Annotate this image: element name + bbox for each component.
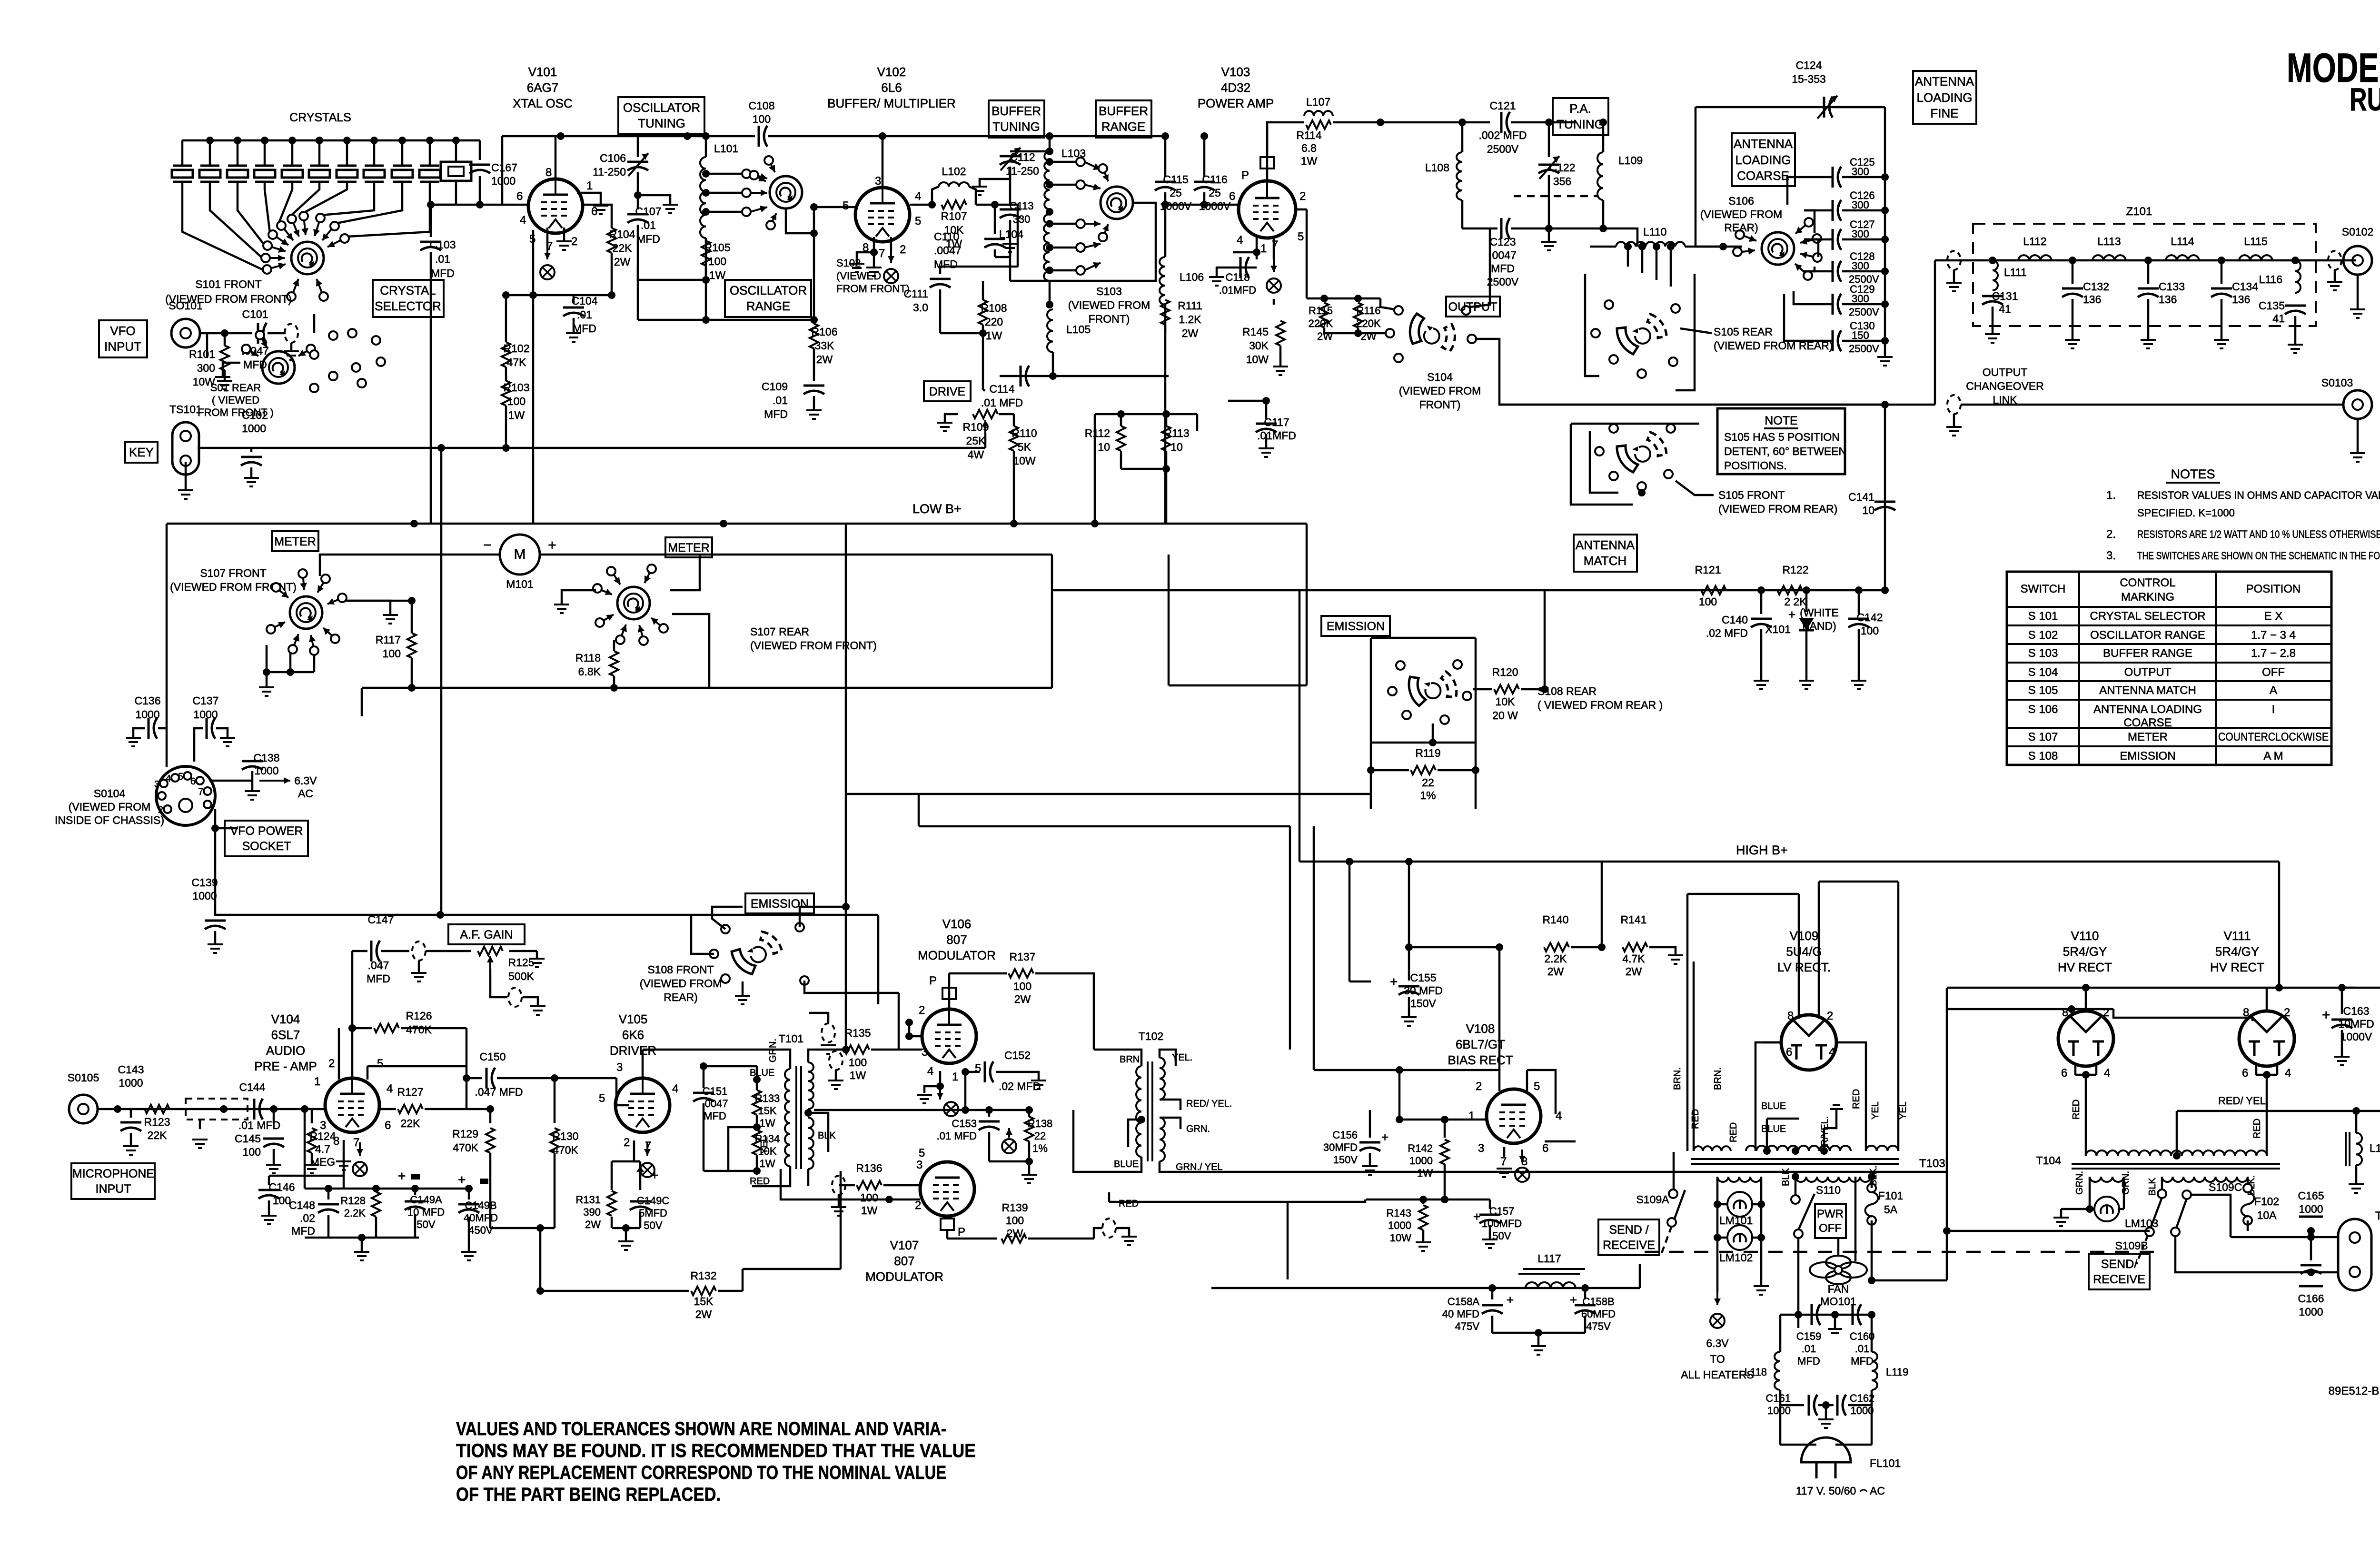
svg-text:MFD: MFD [934, 258, 958, 270]
resistor R128 [372, 1192, 380, 1217]
svg-text:L113: L113 [2097, 235, 2121, 248]
wire link to R125 [426, 950, 471, 952]
svg-text:METER: METER [668, 541, 710, 555]
ground link [284, 351, 299, 360]
wire V102 grid left [814, 206, 855, 208]
svg-text:+: + [548, 537, 556, 553]
svg-text:22K: 22K [401, 1117, 421, 1130]
bulb X V108 [1515, 1168, 1529, 1182]
svg-text:10: 10 [1098, 441, 1110, 453]
label box ANTENNA MATCH [1574, 535, 1637, 572]
svg-text:.01 MFD: .01 MFD [937, 1130, 977, 1142]
svg-text:OSCILLATOR: OSCILLATOR [730, 283, 807, 297]
resistor R106 [813, 233, 815, 324]
svg-text:METER: METER [274, 535, 316, 548]
resistor R140 [1544, 943, 1569, 951]
link R136 [832, 1176, 845, 1195]
svg-text:2500V: 2500V [1849, 343, 1879, 355]
inductor L108 [1461, 122, 1464, 152]
svg-text:C155: C155 [1410, 971, 1437, 984]
svg-text:100: 100 [1006, 1214, 1024, 1227]
svg-text:KEY: KEY [129, 445, 154, 459]
ground R124 [304, 1165, 319, 1173]
svg-text:450V: 450V [468, 1224, 493, 1236]
wire R133 R134 tap [728, 1127, 757, 1171]
wire S107F to meter line [320, 555, 500, 576]
svg-text:RECEIVE: RECEIVE [1603, 1239, 1655, 1252]
svg-text:2W: 2W [1014, 993, 1031, 1005]
ground X101 [1799, 681, 1814, 689]
switch S105 REAR outline [1585, 274, 1599, 376]
svg-text:1.2K: 1.2K [1179, 313, 1201, 326]
svg-text:C117: C117 [1264, 416, 1289, 428]
resistor R101 [224, 333, 226, 346]
svg-text:S106: S106 [1728, 195, 1754, 207]
svg-text:BUFFER: BUFFER [992, 104, 1041, 118]
wire V105 plate top [642, 1050, 644, 1078]
svg-text:300: 300 [197, 362, 215, 374]
rotary switch S106 [1762, 232, 1794, 265]
wire V108 plates top [1498, 1070, 1501, 1091]
ground V102 g3 [849, 264, 864, 272]
wire high b+ drop [2278, 862, 2281, 988]
wire C103 down to LOW B+ bus [430, 252, 432, 524]
ground V101 cathode [556, 241, 572, 250]
tube V110 [2058, 1011, 2113, 1066]
inductor L113 [2092, 255, 2126, 260]
ground S107 front [383, 615, 398, 624]
wire C106 to ground stub [638, 195, 670, 204]
svg-text:RED: RED [750, 1176, 770, 1187]
variable capacitor C106 [637, 136, 639, 157]
tube V106 [922, 1009, 976, 1063]
svg-text:R103: R103 [504, 381, 530, 394]
capacitor C108 [759, 126, 767, 147]
svg-text:50V: 50V [416, 1219, 435, 1230]
svg-text:R116: R116 [1357, 305, 1381, 317]
svg-text:POSITIONS.: POSITIONS. [1724, 459, 1787, 472]
wire V108 pin6 right [1545, 1140, 1576, 1143]
svg-text:R109: R109 [963, 421, 989, 433]
svg-text:R105: R105 [704, 241, 731, 254]
svg-text:S107 FRONT: S107 FRONT [200, 567, 266, 579]
ground S101 rear [215, 377, 230, 386]
svg-text:6.3V: 6.3V [294, 774, 317, 787]
svg-text:V108: V108 [1466, 1021, 1495, 1036]
fan MO101 [1810, 1256, 1867, 1284]
svg-text:2W: 2W [695, 1308, 712, 1320]
svg-text:(VIEWED FROM: (VIEWED FROM [1399, 385, 1481, 397]
wire S108F to V106 grid [804, 981, 899, 993]
svg-text:POSITION: POSITION [2246, 583, 2301, 595]
svg-text:.047 MFD: .047 MFD [475, 1086, 523, 1098]
svg-text:4: 4 [387, 1082, 393, 1095]
svg-text:LV RECT.: LV RECT. [1777, 960, 1831, 974]
resistor R122 [1777, 586, 1802, 595]
svg-text:C140: C140 [1722, 614, 1748, 626]
link jack C101 out [285, 324, 298, 343]
svg-text:RECEIVE: RECEIVE [2093, 1273, 2145, 1286]
label box CRYSTAL SELECTOR [373, 280, 444, 317]
svg-text:METER: METER [2128, 731, 2168, 743]
svg-text:RED/ YEL: RED/ YEL [2218, 1095, 2266, 1107]
wire R143 C157 node [1366, 1199, 1490, 1201]
svg-text:10: 10 [1862, 504, 1874, 516]
wire R115 R116 node [1307, 297, 1380, 300]
ground C145 [266, 1165, 281, 1173]
svg-text:6: 6 [2061, 1067, 2067, 1080]
resistor R138 [1028, 1110, 1031, 1117]
svg-text:1000: 1000 [192, 890, 217, 902]
svg-text:R115: R115 [1309, 305, 1333, 317]
svg-text:INPUT: INPUT [104, 339, 141, 354]
wire C147 node [351, 951, 354, 1028]
wire S101 rear frame [206, 333, 208, 358]
ground V108 heater [1497, 1169, 1512, 1177]
svg-text:C118: C118 [1226, 271, 1250, 283]
svg-text:S110: S110 [1816, 1184, 1841, 1196]
svg-text:2: 2 [571, 235, 577, 248]
svg-text:6: 6 [591, 205, 597, 218]
svg-text:F101: F101 [1878, 1189, 1903, 1202]
ground C158 [1531, 1346, 1546, 1355]
label box EMISSION (audio) [745, 893, 814, 913]
switch S108 REAR [1403, 663, 1461, 714]
svg-text:22K: 22K [148, 1129, 168, 1141]
wire R105 bottom junction [638, 319, 814, 321]
svg-text:ANTENNA: ANTENNA [1576, 538, 1635, 552]
resistor R131 [611, 1161, 613, 1190]
svg-text:L102: L102 [942, 165, 966, 178]
inductor L107 [1298, 121, 1304, 124]
network C148 R128 C149A [305, 1188, 419, 1190]
svg-text:ALL HEATERS: ALL HEATERS [1681, 1368, 1754, 1381]
wires L110 taps to S105 rear [1624, 243, 1632, 250]
svg-text:2.2K: 2.2K [1544, 952, 1567, 965]
ground C117 [1259, 448, 1274, 457]
svg-text:S 101: S 101 [2028, 610, 2058, 623]
inductor L111 [1993, 260, 1998, 290]
capacitor C104 [533, 294, 574, 297]
resistor R120 [1473, 688, 1492, 691]
wire plate line to C121 [1333, 121, 1490, 124]
svg-text:2: 2 [2284, 1006, 2290, 1019]
svg-text:TS102: TS102 [2375, 1209, 2380, 1222]
svg-text:C139: C139 [192, 876, 218, 889]
svg-text:(VIEWED FROM: (VIEWED FROM [1068, 299, 1150, 311]
ground T101 shield [821, 1045, 836, 1054]
svg-text:2W: 2W [1547, 965, 1564, 978]
wire to SO103 [1961, 404, 2343, 406]
wire T103 taps [1763, 1147, 1771, 1155]
svg-text:R110: R110 [1011, 427, 1037, 439]
svg-text:OF THE PART BEING REPLACED.: OF THE PART BEING REPLACED. [456, 1484, 721, 1505]
svg-text:500K: 500K [508, 970, 534, 982]
svg-text:SWITCH: SWITCH [2021, 583, 2066, 595]
svg-text:BUFFER/ MULTIPLIER: BUFFER/ MULTIPLIER [827, 96, 956, 110]
svg-text:COUNTERCLOCKWISE: COUNTERCLOCKWISE [2218, 731, 2329, 743]
resistor R142 [1444, 1120, 1446, 1138]
svg-text:C101: C101 [242, 308, 268, 320]
svg-text:33K: 33K [815, 339, 835, 352]
svg-text:6L6: 6L6 [881, 80, 902, 95]
tube V109 [1781, 1015, 1836, 1070]
ground C143 [123, 1146, 139, 1155]
svg-text:5: 5 [377, 1057, 383, 1070]
svg-text:22K: 22K [613, 242, 633, 254]
svg-text:4: 4 [2285, 1067, 2291, 1080]
svg-text:6.3V: 6.3V [1706, 1337, 1729, 1349]
svg-text:BLUE: BLUE [1761, 1124, 1786, 1134]
svg-text:R117: R117 [376, 634, 401, 646]
ground C146 [261, 1216, 277, 1224]
svg-text:C144: C144 [239, 1081, 266, 1093]
svg-text:8: 8 [333, 1135, 339, 1148]
svg-text:2W: 2W [1007, 1227, 1023, 1239]
wire right verticals ladder [1299, 590, 1301, 862]
dashed box Z101 [1973, 224, 2316, 326]
svg-text:T103: T103 [1919, 1157, 1945, 1170]
label box MICROPHONE INPUT [71, 1163, 155, 1199]
svg-text:3: 3 [616, 1061, 623, 1074]
resistor R137 [949, 972, 1007, 975]
svg-text:S01 REAR: S01 REAR [210, 382, 261, 394]
svg-text:4.7: 4.7 [315, 1143, 330, 1155]
wire HIGH B+ bus [1299, 861, 2279, 863]
link SO103 input [1947, 395, 1961, 414]
wire V103 plate up [1266, 122, 1269, 182]
svg-text:10W: 10W [1246, 353, 1269, 366]
svg-text:MFD: MFD [1851, 1355, 1874, 1367]
svg-text:BLUE: BLUE [750, 1068, 774, 1078]
svg-text:475V: 475V [1455, 1320, 1480, 1332]
svg-text:(VIEWED FROM: (VIEWED FROM [640, 977, 722, 990]
wires LM winding [1716, 1177, 1719, 1204]
svg-text:S0103: S0103 [2321, 377, 2353, 389]
ground V106 cathode [917, 1095, 932, 1103]
resistor R134 [753, 1130, 761, 1155]
svg-text:2W: 2W [1626, 965, 1642, 978]
resistor R132 [540, 1290, 689, 1292]
ground C157 [1482, 1239, 1497, 1248]
svg-text:150V: 150V [1410, 997, 1436, 1010]
variable capacitor C124 [1824, 97, 1833, 118]
capacitor C111 [940, 267, 1018, 274]
resistor R135 [836, 1049, 843, 1051]
ground C140 [1754, 681, 1769, 689]
wire R121 bus [1299, 589, 1885, 592]
wire LM bottoms [1716, 1238, 1719, 1292]
link R135 [829, 1051, 843, 1070]
label box VFO INPUT [99, 320, 147, 357]
svg-text:390: 390 [583, 1206, 601, 1218]
svg-text:807: 807 [894, 1254, 914, 1268]
label box OUTPUT [1446, 297, 1500, 317]
svg-text:470K: 470K [406, 1023, 432, 1036]
svg-text:NOTE: NOTE [1765, 414, 1797, 427]
capacitor C140 [1760, 590, 1763, 614]
wire T102 right verticals [1287, 1202, 1289, 1279]
capacitor C123 [1462, 228, 1497, 230]
svg-text:A.F. GAIN: A.F. GAIN [460, 928, 513, 942]
wire KEY line [198, 447, 985, 449]
svg-text:C149A: C149A [410, 1194, 442, 1206]
svg-text:(WHITE: (WHITE [1800, 606, 1839, 619]
svg-text:RED: RED [2252, 1119, 2262, 1139]
wire S0104 pin to C139 [214, 809, 217, 916]
svg-text:100: 100 [753, 113, 771, 125]
capacitor C164 [2356, 1110, 2380, 1112]
svg-text:COARSE: COARSE [1737, 168, 1789, 183]
svg-text:L112: L112 [2023, 235, 2046, 248]
wire V108 pin1 left [1399, 1119, 1487, 1121]
svg-text:1W: 1W [1417, 1167, 1433, 1179]
ground C134 [2214, 340, 2229, 348]
svg-text:C167: C167 [491, 161, 517, 174]
svg-text:P.A.: P.A. [1569, 101, 1591, 116]
svg-text:C135: C135 [2259, 299, 2285, 312]
svg-text:T102: T102 [1139, 1030, 1163, 1042]
svg-text:L106: L106 [1180, 271, 1204, 283]
svg-text:2W: 2W [585, 1219, 601, 1230]
wire L117 line [1211, 1287, 1640, 1289]
svg-text:5: 5 [919, 1147, 925, 1160]
svg-text:1W: 1W [760, 1158, 775, 1169]
svg-text:R130: R130 [553, 1130, 579, 1142]
link mic input [186, 1099, 248, 1120]
svg-text:8: 8 [545, 166, 552, 179]
svg-text:BLUE: BLUE [1114, 1159, 1139, 1169]
svg-text:1000: 1000 [1409, 1155, 1433, 1167]
capacitor C129 [1833, 294, 1841, 315]
capacitor C149B [468, 1189, 470, 1199]
wire T102 primary top BRN [1094, 1050, 1141, 1066]
capacitor C126 [1833, 200, 1841, 221]
capacitor C150 [486, 1068, 495, 1089]
svg-text:41: 41 [1999, 303, 2011, 315]
svg-text:R120: R120 [1492, 666, 1518, 678]
svg-text:7: 7 [1500, 1155, 1507, 1168]
tube V102 [855, 188, 910, 242]
svg-text:(VIEWED FROM: (VIEWED FROM [69, 801, 151, 813]
svg-text:C156: C156 [1332, 1129, 1358, 1141]
svg-text:V104: V104 [271, 1012, 300, 1026]
svg-text:F102: F102 [2254, 1195, 2279, 1208]
wire cap bus to ground [1884, 177, 1886, 356]
svg-text:1W: 1W [1301, 155, 1318, 167]
capacitor C115 [1164, 136, 1167, 177]
ground C112 [972, 187, 987, 195]
svg-text:22: 22 [1034, 1130, 1046, 1142]
ground C130 bus [1877, 357, 1893, 366]
svg-text:1000: 1000 [119, 1077, 143, 1089]
svg-text:C104: C104 [572, 295, 598, 307]
wires V109 top [1798, 894, 1800, 1019]
svg-text:6: 6 [2242, 1067, 2248, 1080]
resistor R141 [1623, 943, 1647, 951]
svg-text:R101: R101 [189, 348, 215, 360]
svg-text:MARKING: MARKING [2121, 591, 2174, 604]
capacitor C101 [258, 323, 267, 344]
wire T102 primary bottom BLUE [1073, 1110, 1141, 1172]
svg-text:4: 4 [166, 773, 171, 784]
svg-text:2: 2 [900, 243, 906, 256]
capacitor C118 [1233, 251, 1257, 254]
svg-text:YEL: YEL [759, 1136, 770, 1154]
svg-text:MFD: MFD [1491, 262, 1515, 275]
wire Z101 input [1935, 259, 1973, 262]
svg-text:10W: 10W [1390, 1232, 1411, 1244]
wire T102 GRN/YEL bottom [1160, 1161, 1947, 1172]
label box ANTENNA LOADING COARSE [1732, 133, 1795, 186]
svg-text:2500V: 2500V [1487, 143, 1519, 155]
meter M101 [500, 535, 540, 575]
ground C135 [2288, 345, 2303, 353]
svg-text:136: 136 [2232, 293, 2250, 306]
svg-text:R106: R106 [812, 326, 838, 338]
svg-text:V103: V103 [1221, 65, 1250, 79]
svg-text:100: 100 [273, 1194, 291, 1207]
switch S105 REAR [1617, 314, 1666, 354]
label box PWR OFF [1815, 1204, 1846, 1238]
svg-text:T104: T104 [2036, 1154, 2062, 1167]
svg-text:1000: 1000 [491, 175, 516, 187]
svg-text:C136: C136 [135, 694, 161, 707]
terminal strip TS102 [2338, 1219, 2371, 1290]
resistor R136 [857, 1181, 882, 1189]
ground C118 [1209, 277, 1224, 286]
svg-text:2: 2 [328, 1057, 335, 1070]
svg-text:L108: L108 [1425, 161, 1449, 174]
capacitor C103 [430, 205, 432, 237]
socket SO105 [69, 1095, 98, 1123]
svg-text:V102: V102 [877, 65, 906, 79]
svg-text:(VIEWED FROM: (VIEWED FROM [1700, 208, 1783, 220]
wire L109 to L110 [1603, 228, 1637, 247]
svg-text:R145: R145 [1242, 326, 1269, 338]
svg-text:C163: C163 [2343, 1005, 2370, 1017]
svg-text:ANTENNA: ANTENNA [1915, 74, 1974, 89]
wire S107R left contact ground [562, 590, 596, 604]
capacitor C128 [1833, 261, 1841, 282]
svg-text:(VIEWED FROM FRONT): (VIEWED FROM FRONT) [750, 639, 877, 652]
inductor L106 [1160, 257, 1165, 305]
link T101 grn [822, 1023, 835, 1042]
capacitor C160 [1853, 1304, 1861, 1325]
svg-text:C159: C159 [1796, 1330, 1822, 1342]
svg-text:BUFFER RANGE: BUFFER RANGE [2103, 647, 2192, 660]
svg-text:C103: C103 [430, 238, 456, 251]
wire grid line V103 [1165, 204, 1240, 206]
svg-text:BRN.: BRN. [1713, 1067, 1723, 1090]
ground LM103 [2053, 1218, 2069, 1226]
svg-text:MFD: MFD [636, 233, 660, 245]
T103 primary winding below [1795, 1177, 1871, 1182]
svg-text:REAR): REAR) [1724, 221, 1758, 234]
switch S108 FRONT [729, 929, 785, 977]
resistor R121 [1701, 586, 1726, 595]
ground R109 [937, 423, 952, 431]
svg-text:V111: V111 [2224, 929, 2251, 943]
resistor R102 [502, 342, 510, 367]
svg-text:S109C: S109C [2209, 1181, 2242, 1193]
svg-text:3: 3 [922, 1046, 928, 1059]
svg-text:C123: C123 [1490, 236, 1516, 248]
svg-text:L105: L105 [1066, 323, 1091, 336]
svg-text:TO: TO [1710, 1353, 1725, 1365]
svg-text:2: 2 [915, 1199, 921, 1212]
ground R101 [217, 381, 232, 389]
